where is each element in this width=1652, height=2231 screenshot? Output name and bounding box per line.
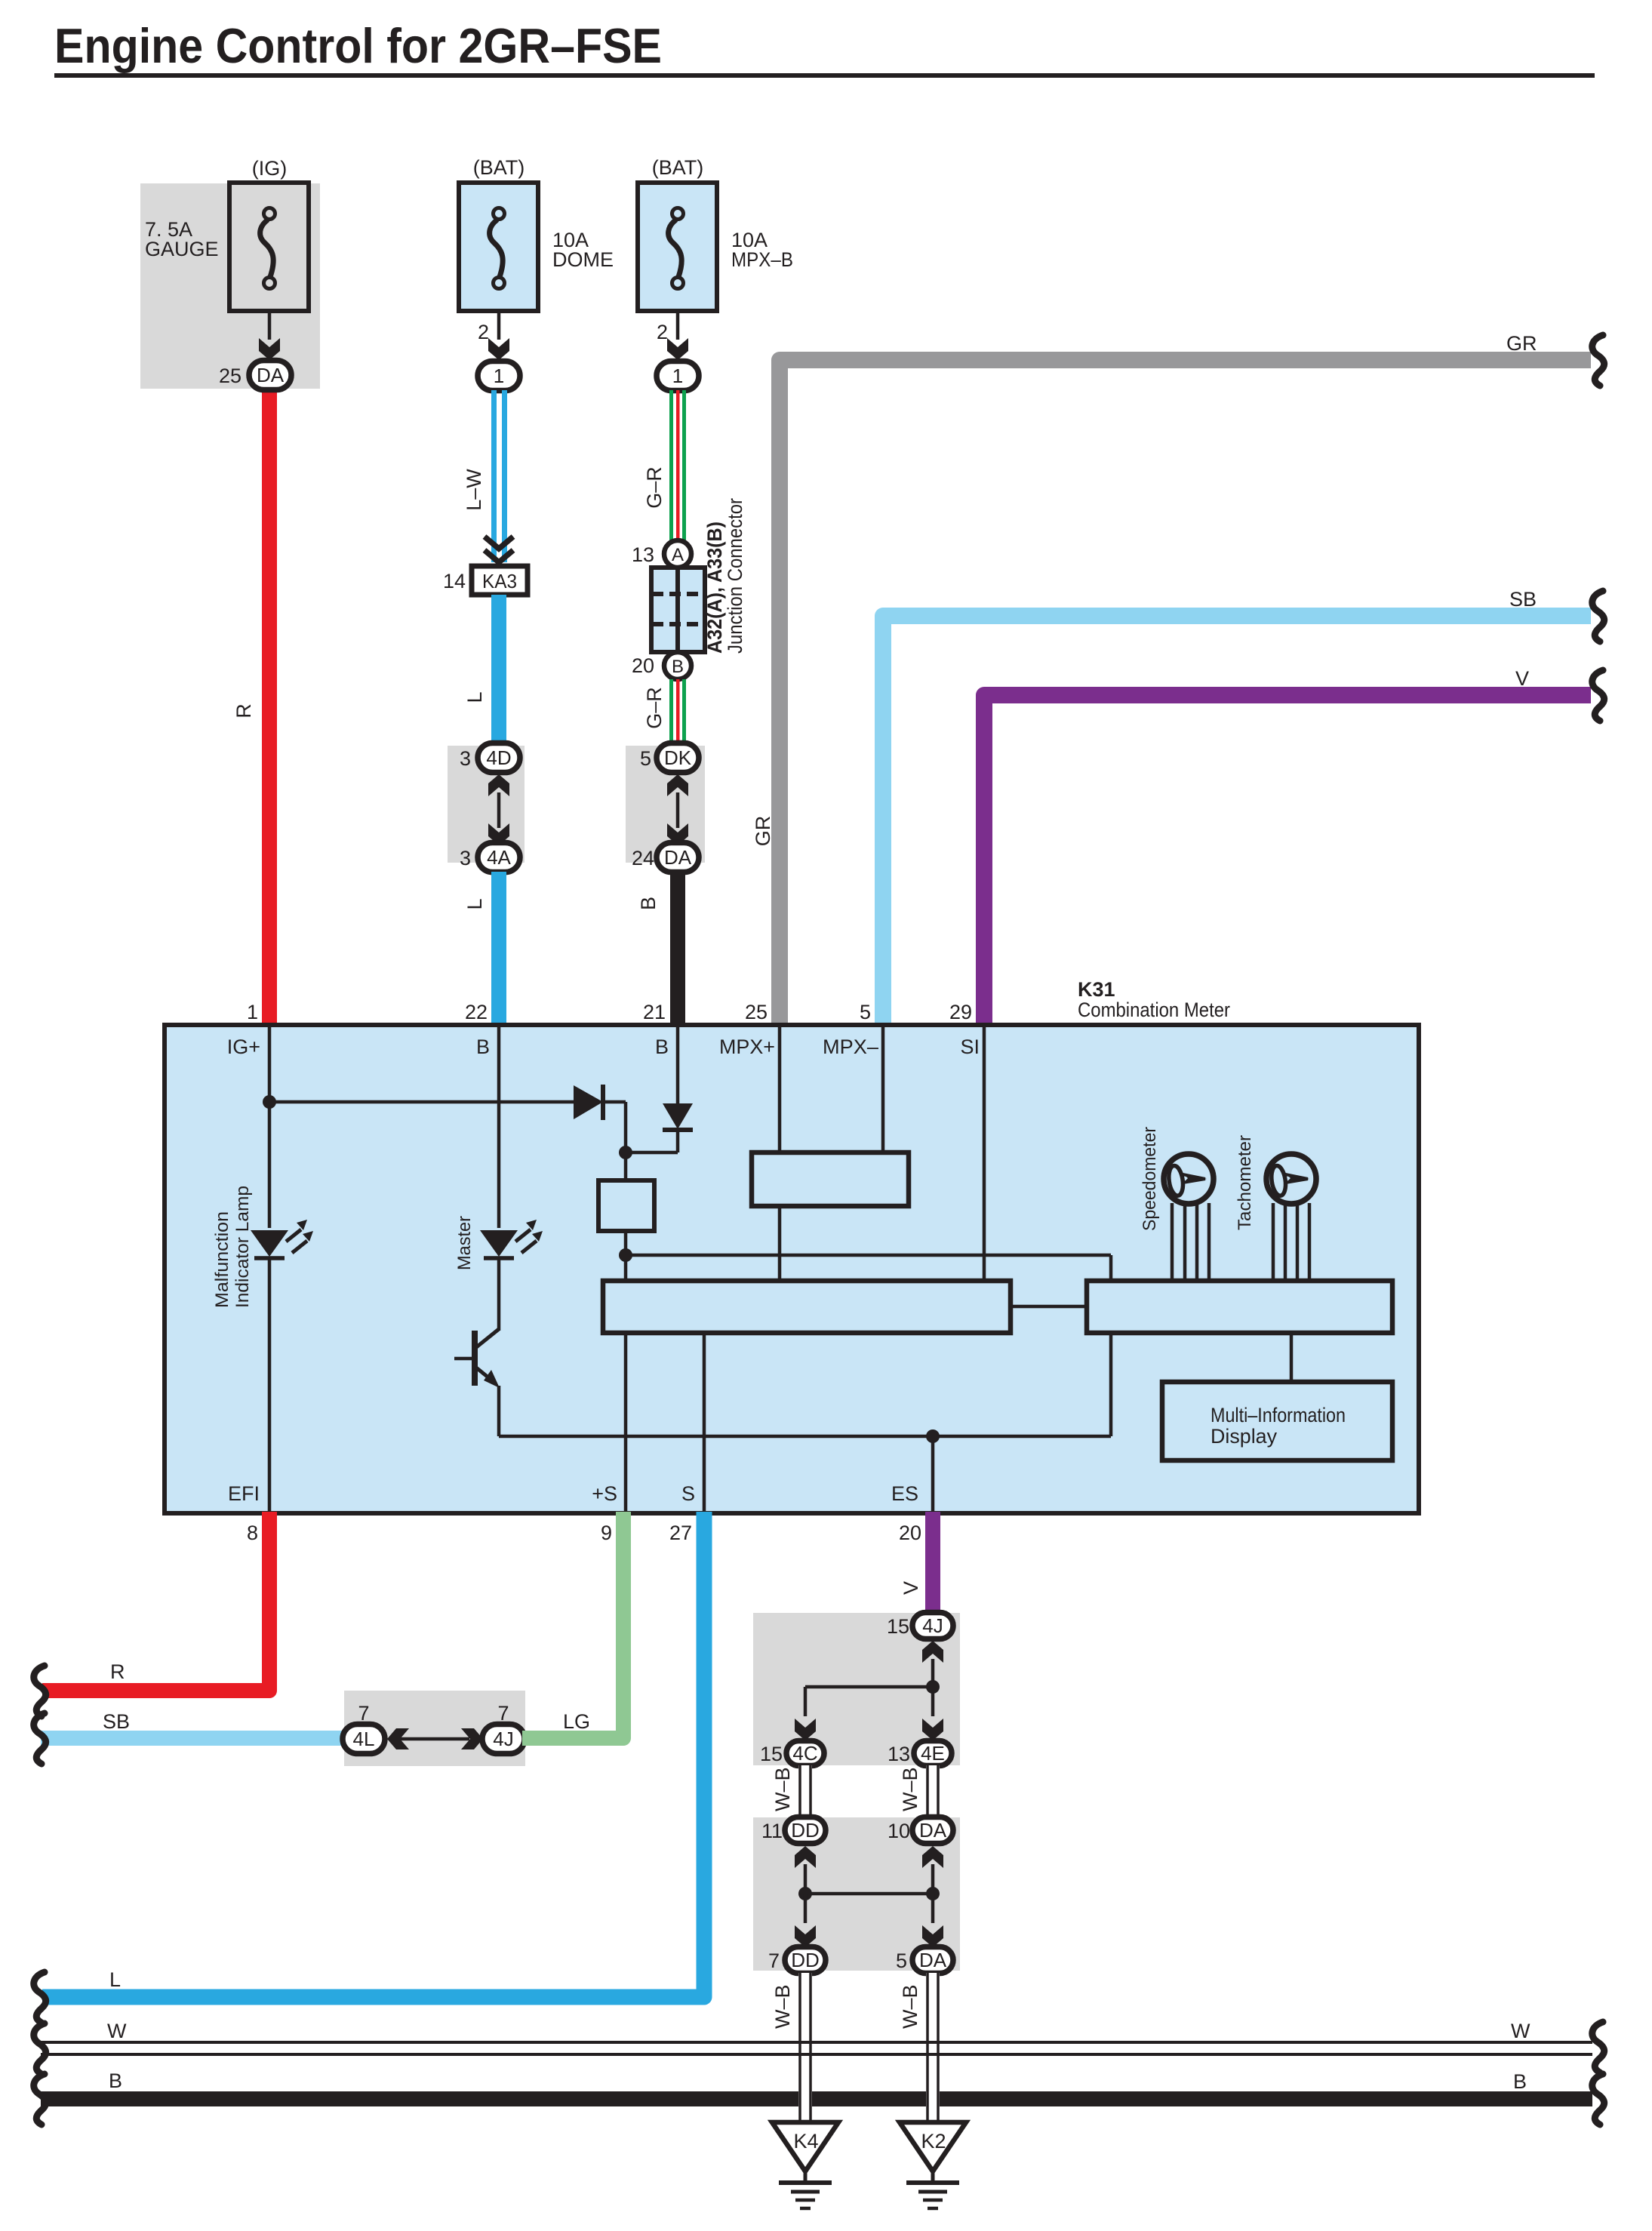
double chevron into KA3 <box>485 537 513 562</box>
wire G-R junction B to DK <box>669 679 686 743</box>
wire ES rail <box>499 1435 1111 1439</box>
wire MPX+ internal <box>778 1026 782 1154</box>
wire R (red) pin 8 to left edge <box>42 1512 269 1691</box>
svg-text:Engine Control for 2GR–FSE: Engine Control for 2GR–FSE <box>54 18 662 73</box>
wire W (white) rail <box>41 2041 1592 2044</box>
connector 4D <box>478 743 520 773</box>
K31 box fill <box>165 1025 1419 1513</box>
svg-text:20: 20 <box>899 1522 921 1544</box>
svg-text:7: 7 <box>768 1949 780 1972</box>
svg-text:20: 20 <box>632 654 654 677</box>
junction terminal A <box>664 540 691 568</box>
svg-text:5: 5 <box>860 1001 871 1023</box>
connector 4L <box>343 1725 385 1754</box>
svg-text:DA: DA <box>664 846 692 869</box>
connector DA (instrument panel) <box>249 361 291 390</box>
arrow right into 4J <box>461 1728 483 1749</box>
connector DD upper <box>785 1817 826 1844</box>
node DD <box>798 1887 812 1900</box>
svg-text:L–W: L–W <box>463 469 485 511</box>
svg-text:(IG): (IG) <box>252 157 288 180</box>
arrow up into DA <box>922 1846 943 1868</box>
wire DD to node <box>804 1864 808 1894</box>
break B right <box>1592 2074 1604 2125</box>
svg-text:W–B: W–B <box>899 1984 921 2029</box>
speedometer gauge <box>1164 1154 1214 1204</box>
svg-text:2: 2 <box>657 321 668 343</box>
LED Master warning <box>480 1220 543 1258</box>
arrow up to 4D <box>488 774 509 796</box>
svg-text:Tachometer: Tachometer <box>1235 1135 1255 1230</box>
wire SB (sky blue) left edge to 4L <box>41 1731 346 1746</box>
node branch <box>926 1680 940 1694</box>
svg-text:5: 5 <box>896 1949 907 1972</box>
wire GR (gray) to MPX+ <box>780 360 1591 1026</box>
svg-text:MPX–B: MPX–B <box>731 248 793 271</box>
svg-text:Multi–Information: Multi–Information <box>1211 1404 1346 1426</box>
connector KA3 <box>472 566 528 595</box>
Multi-Information Display box <box>1162 1382 1392 1460</box>
arrow up to DK <box>667 774 688 796</box>
gray panel lower chain <box>753 1817 960 1971</box>
svg-text:1: 1 <box>672 365 683 387</box>
svg-text:Master: Master <box>454 1216 475 1270</box>
node A <box>619 1146 632 1159</box>
K31 border <box>165 1025 1419 1513</box>
wire W-B DA to K2 <box>926 1973 940 2122</box>
wire V (violet) pin 20 to 4J <box>925 1512 940 1613</box>
wire W-B DD to K4 <box>798 1973 812 2122</box>
svg-text:L: L <box>463 691 486 703</box>
svg-text:13: 13 <box>888 1743 910 1765</box>
svg-text:B: B <box>109 2069 122 2092</box>
svg-text:(BAT): (BAT) <box>652 156 704 179</box>
fuse F2 element <box>490 208 505 289</box>
resistor R1 <box>598 1180 654 1231</box>
svg-text:S: S <box>681 1482 695 1505</box>
wire IG+ to diode D1 <box>269 1100 574 1104</box>
svg-text:29: 29 <box>949 1001 972 1023</box>
gray panel 4L/4J <box>344 1691 525 1766</box>
wire G-R (green/red stripe) to junction A <box>669 390 686 541</box>
svg-text:V: V <box>900 1581 922 1595</box>
svg-text:A32(A), A33(B): A32(A), A33(B) <box>703 522 726 654</box>
arrow into connector 1 <box>488 338 509 360</box>
break B left <box>34 2074 46 2125</box>
connector 1 (DOME) <box>478 362 520 391</box>
svg-text:W: W <box>107 2020 127 2042</box>
svg-text:DA: DA <box>919 1819 947 1842</box>
diode D1 <box>574 1085 603 1119</box>
fuse F3 10A MPX-B box <box>638 183 717 311</box>
arrow into connector 1 <box>667 338 688 360</box>
wire node down <box>804 1894 808 1923</box>
svg-text:3: 3 <box>460 747 471 770</box>
svg-text:24: 24 <box>632 847 654 869</box>
node B <box>619 1248 632 1262</box>
connector DD lower <box>785 1947 826 1974</box>
connector 4A <box>478 843 520 872</box>
internal wiring <box>269 1026 1291 1512</box>
svg-text:B: B <box>637 897 660 910</box>
svg-text:W–B: W–B <box>771 1984 794 2029</box>
break V right <box>1592 670 1604 721</box>
svg-text:R: R <box>110 1660 125 1683</box>
ground symbol K2 <box>906 2171 959 2208</box>
node ES <box>926 1429 940 1443</box>
svg-text:13: 13 <box>632 543 654 566</box>
svg-text:27: 27 <box>669 1522 692 1544</box>
svg-text:4E: 4E <box>921 1742 945 1765</box>
svg-text:B: B <box>476 1035 490 1058</box>
svg-text:1: 1 <box>247 1001 258 1023</box>
wire right box to ES rail <box>1109 1331 1113 1436</box>
arrow down into 4C <box>795 1719 816 1740</box>
gray panel behind GAUGE fuse <box>140 183 320 389</box>
svg-text:22: 22 <box>465 1001 488 1023</box>
node DA <box>926 1887 940 1900</box>
fuse F3 element <box>669 208 684 289</box>
svg-text:4C: 4C <box>792 1742 817 1765</box>
wire SI internal <box>983 1026 986 1282</box>
svg-text:7: 7 <box>497 1702 509 1725</box>
transistor Q1 <box>454 1329 499 1386</box>
arrow down into 4E <box>922 1719 943 1740</box>
title rule <box>54 73 1595 78</box>
tachometer gauge <box>1266 1154 1316 1204</box>
svg-text:Combination Meter: Combination Meter <box>1078 999 1230 1021</box>
arrow left into 4L <box>387 1728 409 1749</box>
svg-text:DA: DA <box>919 1949 947 1971</box>
svg-text:5: 5 <box>640 747 651 770</box>
svg-text:8: 8 <box>247 1522 258 1544</box>
svg-text:K2: K2 <box>921 2130 946 2153</box>
gray panel upper chain <box>753 1613 960 1765</box>
wire D2 to node <box>676 1130 680 1152</box>
node: IG+ junction <box>263 1095 276 1109</box>
svg-text:15: 15 <box>887 1615 909 1638</box>
wire fuse F1 to connector <box>268 311 272 340</box>
svg-text:4J: 4J <box>922 1614 943 1637</box>
wire node link <box>805 1892 933 1896</box>
svg-text:GR: GR <box>752 816 774 847</box>
svg-text:GAUGE: GAUGE <box>145 238 219 260</box>
svg-text:DK: DK <box>664 746 692 769</box>
svg-text:4A: 4A <box>487 846 511 869</box>
wire L-W (blue with white stripe) <box>491 390 497 562</box>
svg-text:DD: DD <box>791 1819 820 1842</box>
wire MIL LED to EFI pin 8 <box>268 1257 272 1512</box>
wire S down to pin 27 <box>703 1331 706 1512</box>
ground symbol K4 <box>779 2171 832 2208</box>
svg-text:R: R <box>232 703 255 719</box>
svg-text:MPX–: MPX– <box>823 1035 878 1058</box>
connector DK <box>657 743 699 773</box>
wire W-B 4E to DA <box>926 1765 940 1818</box>
wire between connectors <box>497 792 501 828</box>
svg-text:4J: 4J <box>493 1728 513 1750</box>
svg-text:21: 21 <box>643 1001 666 1023</box>
svg-text:14: 14 <box>443 570 466 592</box>
svg-text:EFI: EFI <box>228 1482 260 1505</box>
wire DA to node <box>931 1864 935 1894</box>
connector 4J <box>482 1725 525 1754</box>
svg-text:25: 25 <box>745 1001 768 1023</box>
wire SB (sky blue) to MPX- <box>883 616 1591 1026</box>
break SB right <box>1592 591 1604 642</box>
connector 4C <box>786 1741 824 1766</box>
wire Master LED to transistor <box>497 1257 501 1331</box>
wire fuse F2 pin 2 <box>497 311 501 340</box>
wire L (blue) KA3 to 4D <box>491 595 506 746</box>
svg-text:25: 25 <box>219 365 241 387</box>
wire fuse F3 pin 2 <box>676 311 680 340</box>
svg-text:K4: K4 <box>793 2130 818 2153</box>
wire IG+ internal <box>268 1026 272 1228</box>
svg-text:GR: GR <box>1506 332 1537 355</box>
wire B (black) ground rail <box>41 2091 1592 2106</box>
svg-text:4D: 4D <box>486 746 511 769</box>
svg-text:DD: DD <box>791 1949 820 1971</box>
wire B (black) DA to pin 21 <box>670 872 685 1026</box>
svg-text:Display: Display <box>1211 1425 1277 1448</box>
svg-text:G–R: G–R <box>643 687 666 729</box>
svg-text:W–B: W–B <box>899 1767 921 1811</box>
svg-text:Malfunction: Malfunction <box>212 1211 232 1308</box>
wire 4J to node <box>931 1659 935 1687</box>
svg-text:1: 1 <box>494 365 504 387</box>
svg-text:K31: K31 <box>1078 978 1115 1001</box>
ground K4 triangle <box>772 2122 838 2171</box>
svg-text:7: 7 <box>358 1702 369 1725</box>
arrow up into DD <box>795 1846 816 1868</box>
fuse F1 element <box>260 208 275 289</box>
break W right <box>1592 2022 1604 2073</box>
svg-text:+S: +S <box>592 1482 617 1505</box>
arrow down into DD lower <box>795 1925 816 1947</box>
arrow down into DA lower <box>922 1925 943 1947</box>
wire between 4L and 4J <box>400 1737 469 1741</box>
wire B pin21 internal <box>676 1026 680 1103</box>
wire node to 4C branch <box>805 1685 933 1689</box>
svg-text:9: 9 <box>601 1522 612 1544</box>
svg-text:V: V <box>1515 667 1529 690</box>
svg-text:3: 3 <box>460 847 471 869</box>
wire LG (light green) 4J to pin 9 <box>522 1512 623 1738</box>
wire W-B 4C to DD <box>798 1765 812 1818</box>
svg-text:L: L <box>109 1968 121 1991</box>
break GR right <box>1592 335 1604 386</box>
break R left <box>34 1666 46 1716</box>
svg-text:G–R: G–R <box>643 466 666 509</box>
svg-text:B: B <box>672 657 684 677</box>
svg-text:L: L <box>463 898 486 909</box>
svg-text:A: A <box>672 545 684 565</box>
wire emitter down <box>497 1386 501 1436</box>
svg-text:Indicator Lamp: Indicator Lamp <box>232 1186 253 1308</box>
svg-text:W–B: W–B <box>771 1767 794 1811</box>
junction terminal B <box>664 652 691 679</box>
gray panel 4D/4A <box>448 746 525 863</box>
connector DA <box>657 843 699 872</box>
logic block left <box>603 1281 1011 1333</box>
connector DA lower <box>912 1947 953 1974</box>
wire between connectors <box>676 792 680 828</box>
svg-text:SB: SB <box>1509 588 1537 611</box>
svg-text:SI: SI <box>960 1035 980 1058</box>
wire L (blue) 4A to pin 22 <box>491 872 506 1026</box>
wire MID to gauge logic <box>1290 1331 1294 1383</box>
logic block right <box>1087 1281 1392 1333</box>
fuse F2 10A DOME box <box>459 183 538 311</box>
wire logic box link <box>1011 1305 1087 1309</box>
wire +S down to pin 9 <box>624 1331 628 1512</box>
svg-text:Junction Connector: Junction Connector <box>724 498 746 654</box>
svg-text:W: W <box>1511 2020 1530 2042</box>
svg-text:SB: SB <box>103 1710 130 1733</box>
junction connector A32(A), A33(B) box <box>651 568 705 652</box>
wire L (blue) left edge to pin 27 <box>42 1512 704 1997</box>
break W left <box>34 2023 46 2074</box>
svg-text:ES: ES <box>891 1482 918 1505</box>
fuse F1 7.5A GAUGE box <box>229 183 309 311</box>
wire MPX block to logic <box>778 1205 782 1282</box>
wire node B to right <box>626 1254 1111 1257</box>
break SB left <box>34 1713 46 1764</box>
svg-text:4L: 4L <box>353 1728 375 1750</box>
svg-text:LG: LG <box>563 1710 590 1733</box>
wire MPX- internal <box>881 1026 885 1154</box>
svg-text:B: B <box>1513 2070 1527 2093</box>
svg-text:MPX+: MPX+ <box>719 1035 775 1058</box>
wire R (red) DA to pin 1 <box>262 385 277 1026</box>
svg-text:(BAT): (BAT) <box>473 156 525 179</box>
MPX logic block <box>752 1152 909 1206</box>
svg-text:Speedometer: Speedometer <box>1140 1127 1160 1231</box>
arrow down to DA <box>667 823 688 845</box>
gray panel DK/DA <box>626 746 705 863</box>
diode D2 <box>663 1103 693 1129</box>
arrow up into 4J <box>922 1641 943 1663</box>
connector DA upper <box>912 1817 953 1844</box>
svg-text:DOME: DOME <box>552 248 614 271</box>
break L left <box>34 1972 46 2023</box>
svg-text:11: 11 <box>761 1820 783 1842</box>
wire B pin22 internal <box>497 1026 501 1228</box>
LED Malfunction Indicator Lamp <box>251 1220 313 1258</box>
speedometer gauge legs <box>1172 1203 1209 1281</box>
connector 4E <box>914 1741 952 1766</box>
svg-text:15: 15 <box>760 1743 783 1765</box>
wire D1 to node <box>601 1100 626 1104</box>
arrow down to 4A <box>488 823 509 845</box>
tachometer gauge legs <box>1273 1203 1309 1281</box>
svg-text:DA: DA <box>257 364 285 386</box>
wire resistor to node B <box>624 1231 628 1282</box>
connector 4J (floor wire) <box>912 1613 953 1639</box>
svg-text:B: B <box>655 1035 669 1058</box>
wire V (violet) to SI <box>984 695 1591 1026</box>
svg-text:10: 10 <box>888 1820 910 1842</box>
wire ES down to pin 20 <box>931 1436 935 1512</box>
connector 1 (MPX-B) <box>657 362 699 391</box>
svg-text:KA3: KA3 <box>482 570 517 592</box>
ground K2 triangle <box>900 2122 966 2171</box>
svg-text:2: 2 <box>478 321 489 343</box>
svg-text:IG+: IG+ <box>227 1035 260 1058</box>
arrow into DA <box>259 338 280 360</box>
